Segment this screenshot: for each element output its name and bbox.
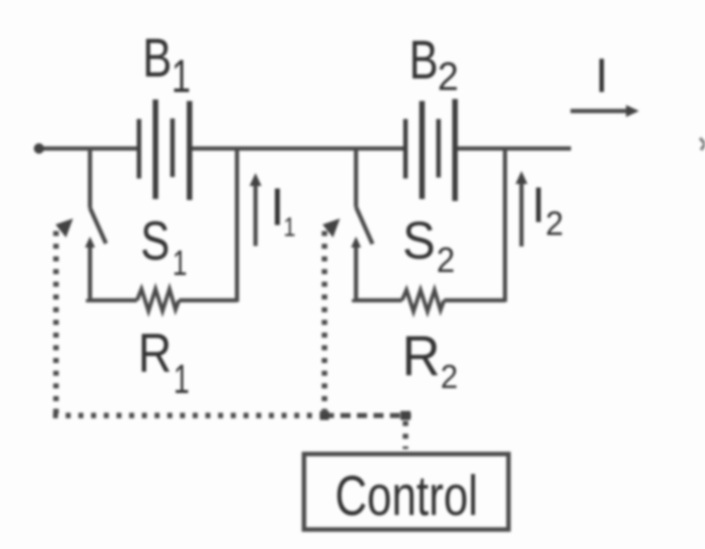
wire loop2 bottom right: [444, 298, 505, 302]
resistor R1: [137, 289, 179, 311]
svg-text:2: 2: [438, 55, 459, 99]
svg-text:2: 2: [441, 358, 458, 395]
svg-text:B: B: [409, 29, 438, 91]
control dotted stub to box: [403, 421, 409, 449]
label R1: [138, 322, 189, 402]
wire loop2 bottom left: [354, 299, 402, 300]
svg-text:B: B: [143, 27, 172, 89]
label B2: [409, 29, 459, 99]
svg-text:I: I: [270, 178, 285, 237]
wire S2 branch left vertical: [354, 149, 358, 208]
label I2: [532, 177, 564, 243]
wire main top left segment: [37, 146, 139, 150]
label I1: [270, 178, 296, 243]
resistor R2: [402, 290, 444, 312]
wire main right segment: [455, 146, 571, 150]
battery B1: [139, 100, 190, 201]
wire loop1 bottom left: [88, 299, 137, 300]
switch S1 blade: [90, 208, 106, 244]
node left endpoint dot: [34, 143, 44, 153]
control dotted horizontal right part: [324, 413, 411, 418]
svg-text:S: S: [403, 211, 436, 270]
switch S2 lower contact arrow: [351, 237, 361, 300]
label S2: [403, 211, 455, 280]
svg-text:1: 1: [174, 357, 190, 402]
svg-text:1: 1: [172, 50, 191, 102]
svg-text:1: 1: [173, 243, 188, 283]
control dotted arrow at S2: [323, 219, 341, 238]
current arrow I: [571, 105, 640, 117]
node control junction: [320, 411, 329, 420]
control dotted vertical from S2: [322, 231, 328, 416]
wire S1 branch left vertical: [88, 149, 92, 209]
wire loop1 bottom right: [179, 298, 237, 302]
control dotted vertical from S1: [53, 231, 59, 416]
control dotted horizontal: [53, 413, 324, 419]
svg-text:I: I: [532, 177, 546, 233]
current arrow I1: [250, 173, 262, 246]
svg-text:Control: Control: [335, 464, 478, 528]
svg-text:S: S: [141, 210, 170, 272]
wire main middle segment: [190, 146, 405, 150]
control dotted arrow at S1: [56, 219, 74, 238]
switch S2 blade: [356, 207, 373, 244]
wire loop2 right vertical: [503, 149, 507, 303]
label B1: [143, 27, 191, 102]
wire edge artifact right: [700, 138, 705, 150]
control box: [304, 454, 509, 530]
svg-text:2: 2: [546, 205, 564, 243]
svg-text:2: 2: [437, 241, 455, 280]
switch S1 lower contact arrow: [85, 237, 95, 300]
node control corner: [401, 411, 411, 420]
svg-text:R: R: [138, 322, 172, 383]
svg-text:1: 1: [284, 213, 296, 243]
battery B2: [406, 99, 456, 201]
label S1: [141, 210, 188, 283]
svg-text:R: R: [402, 323, 440, 387]
label R2: [402, 323, 458, 395]
svg-text:I: I: [595, 50, 608, 103]
wire loop1 right vertical: [235, 149, 239, 303]
current arrow I2: [516, 171, 528, 247]
